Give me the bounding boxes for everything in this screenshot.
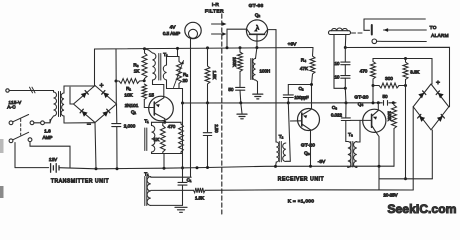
svg-text:I-R: I-R (212, 2, 220, 8)
svg-text:Q₂: Q₂ (255, 13, 261, 18)
svg-text:50: 50 (382, 94, 388, 99)
svg-text:100H: 100H (260, 69, 271, 74)
svg-text:C₁: C₁ (187, 178, 192, 183)
svg-text:10: 10 (335, 61, 340, 66)
svg-text:TO: TO (430, 25, 437, 30)
svg-text:12V: 12V (49, 157, 58, 162)
svg-text:20-25V: 20-25V (383, 193, 397, 198)
svg-text:K = ×1,000: K = ×1,000 (288, 199, 315, 205)
svg-text:300: 300 (385, 76, 393, 81)
svg-text:R₁: R₁ (126, 86, 131, 91)
svg-text:Q₄: Q₄ (358, 102, 364, 107)
svg-text:FILTER: FILTER (205, 9, 224, 15)
svg-text:TRANSMITTER UNIT: TRANSMITTER UNIT (51, 179, 109, 185)
svg-text:R₂: R₂ (183, 72, 188, 77)
svg-text:λ: λ (256, 26, 259, 32)
svg-text:GT-66: GT-66 (249, 3, 264, 9)
svg-text:-3V: -3V (318, 159, 326, 165)
svg-text:T₁: T₁ (144, 172, 149, 178)
svg-text:T₁: T₁ (144, 119, 149, 124)
svg-text:T₃: T₃ (348, 132, 353, 137)
svg-text:470: 470 (168, 124, 176, 129)
svg-text:SeekIC.com: SeekIC.com (387, 202, 456, 216)
svg-text:R₃: R₃ (133, 63, 138, 68)
svg-text:Q₃.: Q₃. (304, 151, 311, 156)
svg-text:GT-20: GT-20 (354, 95, 368, 101)
svg-text:C₃: C₃ (332, 105, 337, 110)
svg-text:GT-20: GT-20 (301, 143, 315, 149)
svg-text:C₂: C₂ (298, 86, 303, 91)
svg-text:10K: 10K (124, 93, 133, 98)
svg-text:Q₁: Q₁ (131, 110, 137, 115)
svg-text:2,000: 2,000 (124, 124, 136, 129)
svg-text:1K: 1K (154, 137, 161, 142)
svg-text:0.022: 0.022 (331, 113, 343, 118)
svg-text:15: 15 (149, 92, 155, 97)
svg-text:10: 10 (335, 75, 340, 80)
svg-text:2.50: 2.50 (214, 124, 219, 133)
svg-text:RECEIVER UNIT: RECEIVER UNIT (278, 177, 324, 183)
svg-text:1.5K: 1.5K (212, 71, 217, 80)
svg-text:A-C: A-C (7, 104, 16, 109)
svg-text:150K: 150K (387, 111, 392, 121)
svg-text:160K: 160K (232, 57, 237, 67)
svg-text:100μμF: 100μμF (294, 95, 309, 100)
svg-text:3.3K: 3.3K (410, 70, 419, 75)
svg-text:+: + (436, 80, 440, 87)
svg-text:1.5K: 1.5K (195, 195, 204, 200)
svg-text:T₂: T₂ (279, 134, 284, 139)
svg-text:+9V: +9V (288, 42, 297, 48)
svg-text:47K: 47K (300, 66, 309, 71)
svg-text:R₄: R₄ (301, 58, 306, 63)
svg-text:470: 470 (360, 69, 368, 74)
svg-text:−: − (87, 122, 91, 129)
svg-text:1K: 1K (134, 69, 141, 74)
svg-text:0.5 AMP: 0.5 AMP (163, 31, 180, 36)
svg-text:AMP: AMP (43, 135, 53, 140)
svg-text:ALARM: ALARM (431, 33, 449, 38)
svg-text:50: 50 (228, 87, 234, 92)
svg-text:+: + (99, 83, 103, 90)
svg-text:T₁: T₁ (163, 52, 168, 58)
svg-text:4V: 4V (170, 25, 177, 31)
svg-text:1.6: 1.6 (44, 129, 51, 134)
svg-text:2N101: 2N101 (125, 103, 139, 108)
svg-text:20: 20 (182, 78, 188, 83)
